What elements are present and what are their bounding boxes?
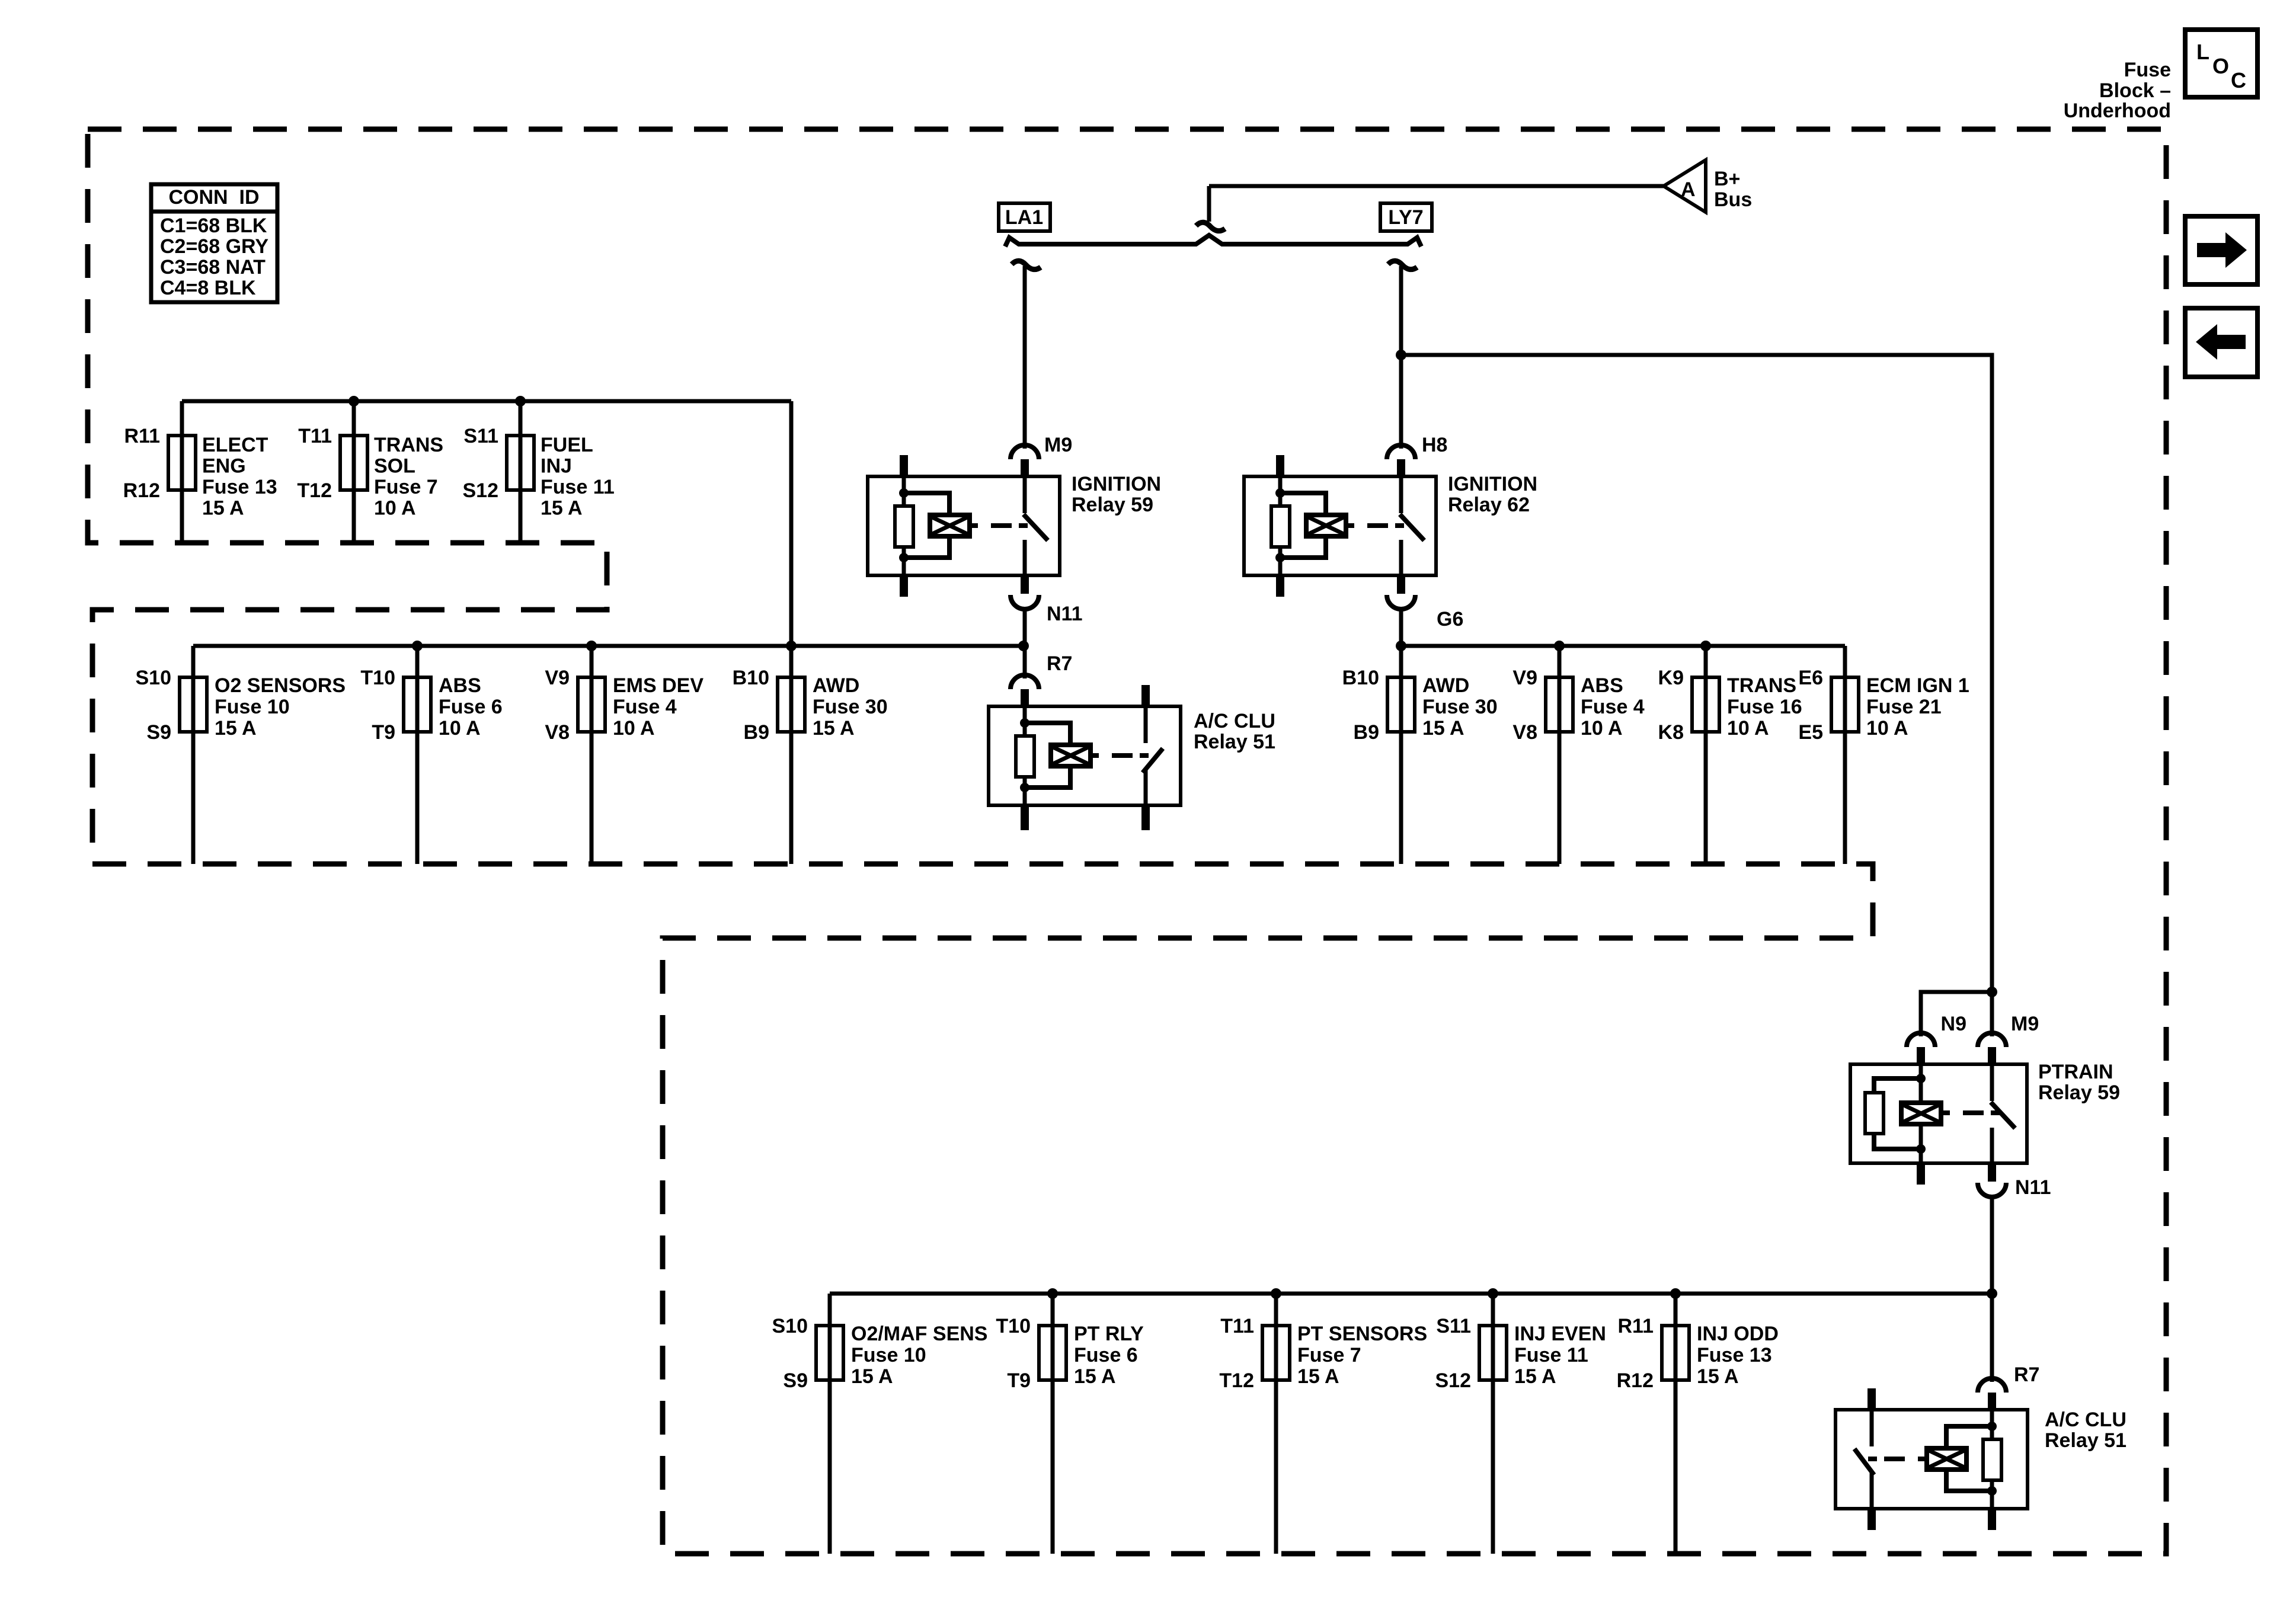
svg-text:10 A: 10 A [1581,717,1623,740]
svg-text:15 A: 15 A [1514,1365,1556,1388]
svg-text:15 A: 15 A [1297,1365,1339,1388]
svg-text:LA1: LA1 [1005,206,1043,229]
svg-text:T11: T11 [1220,1315,1254,1337]
svg-text:15 A: 15 A [1422,717,1464,740]
svg-text:AWD: AWD [1422,674,1469,697]
svg-text:EMS DEV: EMS DEV [613,674,703,697]
svg-text:Fuse 6: Fuse 6 [439,696,503,718]
svg-text:Block –: Block – [2099,79,2171,102]
svg-text:AWD: AWD [813,674,859,697]
svg-text:Underhood: Underhood [2064,100,2171,122]
svg-text:N9: N9 [1941,1013,1966,1035]
svg-text:A/C CLU: A/C CLU [1194,710,1275,732]
svg-text:Fuse 30: Fuse 30 [813,696,888,718]
svg-text:15 A: 15 A [813,717,855,740]
svg-text:TRANS: TRANS [1727,674,1796,697]
svg-text:Fuse 7: Fuse 7 [1297,1344,1361,1366]
svg-text:H8: H8 [1422,434,1447,456]
svg-text:INJ EVEN: INJ EVEN [1514,1323,1606,1345]
svg-text:ABS: ABS [439,674,481,697]
svg-text:S10: S10 [772,1315,808,1337]
svg-text:Fuse 21: Fuse 21 [1866,696,1942,718]
svg-text:Fuse 6: Fuse 6 [1074,1344,1138,1366]
svg-text:Fuse 4: Fuse 4 [1581,696,1645,718]
svg-text:R11: R11 [124,425,161,447]
svg-text:CONN ID: CONN ID [169,186,260,209]
svg-text:15 A: 15 A [851,1365,893,1388]
svg-text:B10: B10 [733,667,769,689]
svg-text:K9: K9 [1658,667,1684,689]
svg-text:ABS: ABS [1581,674,1623,697]
svg-text:Fuse 7: Fuse 7 [374,476,438,498]
svg-text:FUEL: FUEL [541,434,593,456]
svg-text:T11: T11 [298,425,332,447]
svg-text:15 A: 15 A [215,717,257,740]
svg-text:R12: R12 [123,479,160,502]
svg-text:Fuse 4: Fuse 4 [613,696,677,718]
svg-text:N11: N11 [1047,603,1083,625]
svg-text:B9: B9 [744,721,769,744]
svg-text:Fuse: Fuse [2124,59,2171,81]
svg-text:T12: T12 [1219,1369,1254,1392]
svg-text:Fuse 10: Fuse 10 [215,696,290,718]
svg-text:Fuse 11: Fuse 11 [541,476,615,498]
svg-text:IGNITION: IGNITION [1072,473,1161,495]
svg-text:C4=8 BLK: C4=8 BLK [160,277,256,299]
svg-text:S9: S9 [146,721,171,744]
svg-text:B9: B9 [1354,721,1379,744]
svg-text:Relay 59: Relay 59 [2038,1081,2120,1104]
svg-text:V9: V9 [1512,667,1537,689]
svg-text:INJ ODD: INJ ODD [1697,1323,1779,1345]
svg-text:T10: T10 [360,667,395,689]
svg-text:R11: R11 [1618,1315,1654,1337]
svg-text:V8: V8 [545,721,570,744]
svg-text:LY7: LY7 [1388,206,1423,229]
svg-text:R7: R7 [2014,1363,2039,1386]
svg-text:Fuse 11: Fuse 11 [1514,1344,1588,1366]
svg-text:Fuse 30: Fuse 30 [1422,696,1498,718]
svg-text:T10: T10 [996,1315,1031,1337]
svg-text:S12: S12 [463,479,499,502]
svg-text:M9: M9 [1044,434,1072,456]
svg-text:E5: E5 [1798,721,1823,744]
svg-text:S11: S11 [1436,1315,1471,1337]
svg-text:ELECT: ELECT [202,434,268,456]
svg-text:B+: B+ [1714,168,1740,190]
svg-text:T9: T9 [372,721,395,744]
svg-text:V9: V9 [545,667,570,689]
svg-text:Fuse 10: Fuse 10 [851,1344,926,1366]
svg-text:R7: R7 [1047,652,1072,675]
svg-text:PT RLY: PT RLY [1074,1323,1144,1345]
svg-text:S11: S11 [463,425,498,447]
svg-text:Fuse 13: Fuse 13 [1697,1344,1772,1366]
svg-text:S10: S10 [136,667,172,689]
svg-text:15 A: 15 A [202,497,244,520]
svg-text:O2 SENSORS: O2 SENSORS [215,674,346,697]
svg-text:K8: K8 [1658,721,1684,744]
svg-text:C3=68 NAT: C3=68 NAT [160,256,266,279]
svg-text:PT SENSORS: PT SENSORS [1297,1323,1427,1345]
svg-text:Fuse 13: Fuse 13 [202,476,277,498]
svg-text:R12: R12 [1617,1369,1654,1392]
svg-text:A/C CLU: A/C CLU [2045,1409,2126,1431]
svg-text:O2/MAF SENS: O2/MAF SENS [851,1323,987,1345]
svg-text:Bus: Bus [1714,188,1752,211]
svg-text:PTRAIN: PTRAIN [2038,1061,2113,1083]
svg-text:G6: G6 [1437,608,1463,630]
svg-text:Relay 51: Relay 51 [1194,731,1275,753]
svg-text:Fuse 16: Fuse 16 [1727,696,1802,718]
svg-text:C1=68 BLK: C1=68 BLK [160,215,267,237]
svg-text:SOL: SOL [374,455,415,478]
svg-text:15 A: 15 A [541,497,583,520]
svg-text:10 A: 10 A [1866,717,1908,740]
svg-text:ECM IGN 1: ECM IGN 1 [1866,674,1969,697]
svg-text:IGNITION: IGNITION [1448,473,1537,495]
svg-text:C: C [2231,68,2246,92]
svg-text:O: O [2212,54,2229,78]
svg-text:S12: S12 [1435,1369,1472,1392]
svg-text:Relay 62: Relay 62 [1448,494,1530,516]
svg-text:N11: N11 [2015,1176,2051,1199]
svg-text:S9: S9 [783,1369,808,1392]
svg-text:A: A [1681,178,1696,201]
svg-text:15 A: 15 A [1697,1365,1739,1388]
svg-text:Relay 51: Relay 51 [2045,1429,2126,1452]
svg-text:10 A: 10 A [439,717,481,740]
svg-text:Relay 59: Relay 59 [1072,494,1153,516]
svg-text:10 A: 10 A [1727,717,1769,740]
svg-text:INJ: INJ [541,455,572,478]
svg-text:L: L [2196,40,2209,64]
svg-text:15 A: 15 A [1074,1365,1116,1388]
svg-text:10 A: 10 A [613,717,655,740]
svg-text:M9: M9 [2011,1013,2039,1035]
svg-text:V8: V8 [1512,721,1537,744]
svg-text:C2=68 GRY: C2=68 GRY [160,235,268,258]
svg-text:T9: T9 [1007,1369,1031,1392]
svg-text:TRANS: TRANS [374,434,443,456]
svg-text:10 A: 10 A [374,497,416,520]
svg-text:B10: B10 [1342,667,1379,689]
svg-text:ENG: ENG [202,455,246,478]
svg-text:E6: E6 [1798,667,1823,689]
svg-text:T12: T12 [297,479,332,502]
